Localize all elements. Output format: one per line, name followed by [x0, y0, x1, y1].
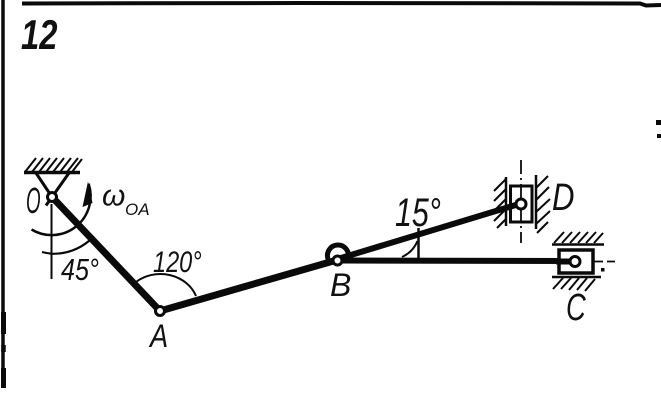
pin A	[156, 307, 165, 316]
120 degree arc at A	[136, 274, 196, 296]
15 degree arc	[402, 241, 418, 257]
support legs at O	[36, 173, 58, 206]
omega arrowhead	[83, 182, 93, 208]
svg-text:A: A	[148, 319, 168, 355]
svg-text:120°: 120°	[153, 245, 202, 278]
link BD	[341, 204, 519, 258]
D left wall hatching	[494, 179, 506, 228]
omega arrow arc	[32, 184, 91, 235]
svg-text:D: D	[552, 177, 575, 219]
border frame top	[22, 3, 661, 6]
ground hatching at O	[25, 158, 82, 172]
svg-text:45°: 45°	[61, 251, 99, 286]
link BC end into slider	[556, 259, 570, 265]
pin C	[570, 257, 580, 267]
pin O	[48, 193, 57, 202]
svg-text:12: 12	[21, 11, 57, 58]
C centerline right (dash-dot)	[594, 261, 615, 263]
C top guide line	[552, 243, 604, 246]
ring at B	[327, 245, 348, 259]
svg-text:O: O	[26, 182, 41, 222]
svg-text:C: C	[566, 287, 587, 329]
link BC	[340, 258, 570, 265]
C bottom guide line	[552, 276, 601, 279]
D left wall	[505, 177, 508, 226]
D slider block	[511, 186, 533, 222]
svg-text:OA: OA	[125, 200, 150, 219]
link AB	[160, 260, 337, 311]
pin B	[333, 256, 342, 265]
right edge mark 2	[657, 134, 661, 138]
D right wall hatching	[536, 176, 550, 233]
border frame left	[1, 0, 5, 388]
svg-text:ω: ω	[102, 180, 125, 213]
C bottom hatching	[553, 278, 595, 291]
link OA	[53, 198, 160, 311]
15 degree tick line	[417, 228, 420, 258]
pin D	[516, 199, 526, 209]
D centerline (dash-dot)	[520, 160, 522, 243]
45 degree arc	[42, 241, 90, 254]
C centerline dot	[601, 268, 605, 272]
C slider block	[559, 250, 593, 273]
ground line at O	[24, 171, 80, 175]
C top hatching	[554, 232, 603, 243]
D right wall	[535, 175, 538, 229]
vertical reference line below O	[51, 204, 53, 279]
right edge mark 1	[656, 120, 661, 125]
svg-text:B: B	[330, 267, 351, 303]
svg-text:15°: 15°	[395, 190, 441, 235]
